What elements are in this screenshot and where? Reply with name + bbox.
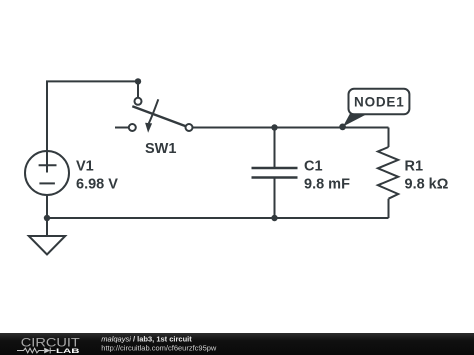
svg-text:malqaysi / lab3, 1st circuit: malqaysi / lab3, 1st circuit	[101, 334, 192, 343]
capacitor C1	[252, 128, 298, 219]
junction dot capacitor top	[271, 124, 277, 130]
switch SW1 arrow head	[145, 123, 152, 133]
node NODE1 dot	[339, 124, 346, 131]
svg-text:6.98 V: 6.98 V	[76, 177, 118, 193]
wire V1 top lead vertical	[46, 81, 48, 172]
wire top-left horizontal	[46, 80, 138, 82]
svg-text:R1: R1	[405, 159, 424, 175]
svg-text:9.8 kΩ: 9.8 kΩ	[405, 177, 449, 193]
ground	[29, 218, 65, 255]
logo diode triangle	[44, 348, 50, 354]
svg-text:9.8 mF: 9.8 mF	[304, 177, 350, 193]
resistor R1	[378, 128, 398, 219]
wire switch right to resistor top	[193, 127, 389, 129]
voltage source V1	[25, 151, 69, 218]
node NODE1 callout tail	[343, 112, 367, 127]
svg-text:SW1: SW1	[145, 141, 176, 157]
svg-text:LAB: LAB	[56, 348, 80, 355]
svg-text:http://circuitlab.com/cf6eurzf: http://circuitlab.com/cf6eurzfc95pw	[101, 344, 217, 353]
wire bottom horizontal	[47, 217, 389, 219]
junction dot at switch common	[135, 78, 141, 84]
junction dot capacitor bottom	[271, 215, 277, 221]
logo schematic line with resistor and diode	[17, 348, 56, 354]
svg-text:C1: C1	[304, 159, 323, 175]
node NODE1 balloon	[349, 89, 410, 115]
svg-text:V1: V1	[76, 159, 94, 175]
svg-text:NODE1: NODE1	[354, 95, 405, 110]
junction dot ground node	[44, 215, 50, 221]
switch SW1	[115, 98, 193, 131]
wire switch common vertical	[137, 81, 139, 97]
